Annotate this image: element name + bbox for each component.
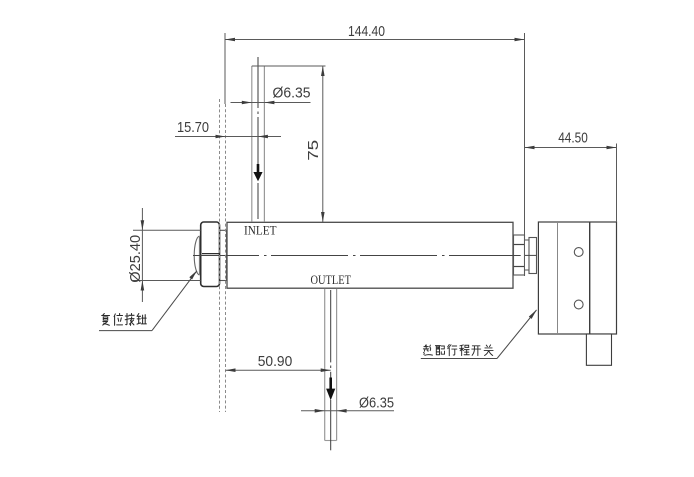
svg-text:75: 75 — [305, 140, 322, 161]
svg-text:15.70: 15.70 — [177, 119, 209, 136]
svg-text:50.90: 50.90 — [258, 353, 293, 370]
svg-text:Ø6.35: Ø6.35 — [359, 395, 394, 412]
svg-text:144.40: 144.40 — [348, 23, 385, 40]
svg-text:INLET: INLET — [244, 222, 277, 237]
svg-text:Ø6.35: Ø6.35 — [273, 85, 311, 102]
svg-text:44.50: 44.50 — [558, 130, 588, 147]
svg-text:Ø25.40: Ø25.40 — [127, 235, 144, 283]
svg-text:OUTLET: OUTLET — [311, 272, 352, 287]
